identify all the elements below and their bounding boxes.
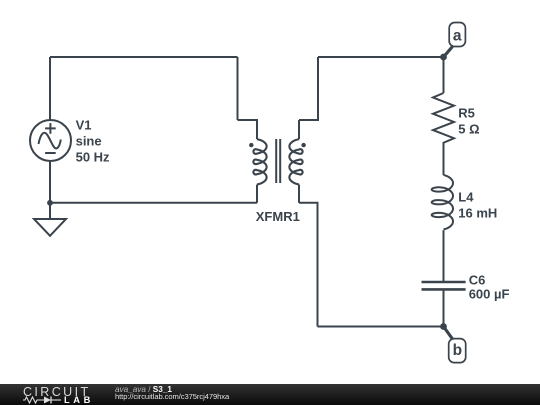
svg-text:V1: V1	[76, 117, 92, 132]
wire secondary top lead	[298, 120, 300, 139]
svg-text:sine: sine	[76, 133, 102, 148]
node a label box	[449, 23, 465, 47]
svg-text:50 Hz: 50 Hz	[76, 149, 110, 164]
wire primary right vertical	[237, 57, 239, 120]
svg-text:XFMR1: XFMR1	[256, 209, 300, 224]
wire top secondary	[318, 56, 444, 58]
node a pointer	[444, 47, 453, 58]
svg-text:b: b	[453, 342, 462, 359]
junction V1 bottom	[47, 200, 53, 206]
wire L4 to C6	[443, 230, 445, 282]
node b label box	[449, 339, 466, 363]
svg-text:5 Ω: 5 Ω	[458, 122, 479, 137]
footer title line	[115, 385, 172, 394]
CircuitLab logo schematic squiggle	[23, 395, 63, 405]
wire V1 bottom lead	[49, 162, 51, 220]
wire secondary bottom step	[299, 203, 318, 327]
node b pointer	[444, 327, 453, 340]
wire R5 to L4	[443, 142, 445, 175]
wire secondary bottom lead	[298, 185, 300, 203]
svg-text:16 mH: 16 mH	[458, 206, 497, 221]
ground	[34, 219, 66, 236]
CircuitLab logo wordmark	[23, 385, 91, 399]
svg-text:L4: L4	[458, 190, 474, 205]
transformer XFMR1 primary winding	[253, 139, 266, 184]
wire bottom secondary	[318, 326, 444, 328]
wire C6 to node b	[443, 290, 445, 327]
capacitor C6	[422, 282, 466, 289]
wire primary top step	[238, 120, 258, 139]
wire primary bottom lead	[256, 185, 258, 203]
svg-text:C6: C6	[469, 273, 486, 288]
junction node b	[440, 323, 447, 330]
transformer XFMR1 secondary phase dot	[301, 143, 305, 147]
transformer XFMR1 secondary winding	[289, 139, 302, 184]
voltage source V1	[30, 120, 71, 161]
svg-text:a: a	[453, 28, 462, 45]
svg-text:600 µF: 600 µF	[469, 286, 510, 301]
junction node a	[440, 54, 447, 61]
inductor L4	[432, 175, 453, 229]
footer bar	[0, 384, 540, 405]
transformer XFMR1 core	[276, 139, 280, 183]
wire V1 top lead	[49, 57, 51, 120]
svg-text:R5: R5	[458, 106, 475, 121]
resistor R5	[433, 93, 454, 143]
footer url line	[115, 392, 229, 401]
wire node a to R5	[443, 57, 445, 93]
CircuitLab logo LAB	[64, 395, 94, 405]
wire bottom primary	[50, 202, 257, 204]
wire top primary	[50, 56, 238, 58]
transformer XFMR1 primary phase dot	[249, 143, 253, 147]
wire secondary top step	[299, 57, 318, 120]
